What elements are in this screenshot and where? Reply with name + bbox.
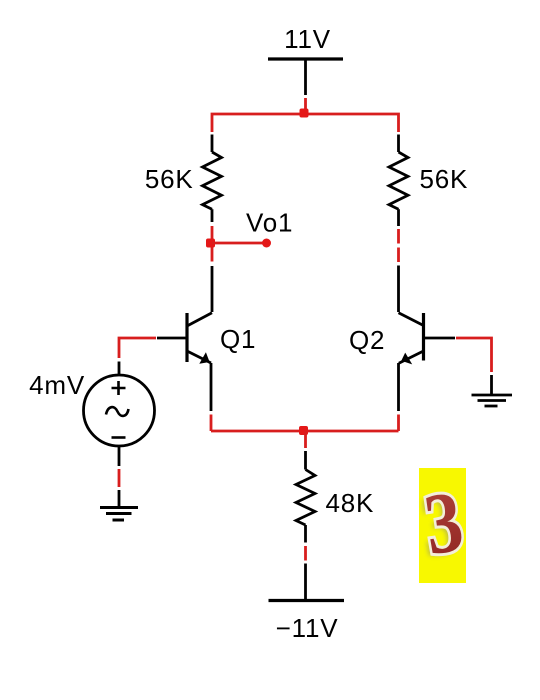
svg-text:48K: 48K: [326, 488, 375, 518]
svg-text:−11V: −11V: [276, 613, 339, 643]
wire Q1 base red: [119, 338, 156, 358]
transistor Q2 emitter diagonal: [399, 351, 424, 363]
svg-text:56K: 56K: [145, 164, 194, 194]
wire Q1 emitter black: [210, 363, 213, 411]
svg-text:4mV: 4mV: [29, 370, 85, 400]
wire Vo1 stub: [212, 242, 264, 245]
resistor R3 48K zigzag: [296, 470, 315, 526]
wire Vo1 vertical red: [211, 226, 214, 262]
wire emitter rail: [211, 430, 399, 433]
wire Q1 collector: [211, 266, 214, 312]
transistor Q2 emitter arrow: [401, 353, 412, 365]
svg-text:56K: 56K: [420, 164, 469, 194]
wire tail black bottom: [304, 564, 307, 601]
source V1 circle: [84, 375, 155, 446]
transistor Q1 collector diagonal: [187, 313, 212, 326]
wire R2 bottom red dash2: [397, 248, 400, 263]
wire source bottom black: [118, 446, 121, 466]
transistor Q1 emitter diagonal: [187, 351, 211, 363]
source V1 minus: [112, 436, 126, 439]
wire Q1 emitter red: [210, 415, 213, 432]
wire tail red bottom: [304, 546, 307, 561]
resistor R2 top lead: [397, 135, 400, 153]
transistor Q1 base bar: [185, 313, 188, 362]
wire Q1 base black: [157, 337, 186, 340]
svg-text:Vo1: Vo1: [246, 208, 293, 238]
badge background: [419, 468, 466, 583]
wire Q2 collector: [397, 266, 400, 313]
resistor R1 bottom lead: [211, 209, 214, 222]
transistor Q1 emitter arrow: [199, 352, 209, 364]
wire Q2 base red: [456, 338, 492, 372]
power -11V bar: [269, 599, 345, 602]
svg-text:Q2: Q2: [349, 325, 385, 355]
node Vo1 endpoint: [262, 239, 271, 248]
resistor R3 bottom lead: [304, 525, 307, 543]
wire source ground lead: [118, 490, 121, 507]
power +11V bar: [268, 57, 343, 60]
resistor R1 top lead: [211, 135, 214, 153]
source V1 plus: [112, 381, 126, 395]
wire supply stem black: [304, 59, 307, 95]
wire Q2 ground lead: [490, 375, 493, 395]
source V1 sine: [106, 407, 129, 416]
wire tail red top: [304, 431, 307, 448]
node Vo1 junction: [206, 239, 215, 248]
resistor R1 56K zigzag: [203, 152, 222, 209]
transistor Q2 collector diagonal: [399, 313, 424, 326]
transistor Q2 base bar: [422, 313, 425, 361]
wire source top lead: [118, 362, 121, 376]
resistor R2 bottom lead: [397, 209, 400, 226]
ground right: [472, 395, 513, 406]
resistor R2 56K zigzag: [389, 152, 408, 209]
junction emitter rail: [299, 426, 308, 435]
svg-text:Q1: Q1: [220, 324, 256, 354]
wire supply stem red: [304, 98, 307, 114]
wire Q2 emitter red: [397, 415, 400, 432]
resistor R3 top lead: [304, 451, 307, 470]
wire top rail: [212, 114, 399, 132]
wire R2 bottom red dash1: [397, 229, 400, 244]
wire Q2 base black: [425, 337, 455, 340]
ground left: [100, 508, 138, 521]
wire Q2 emitter black: [397, 363, 400, 411]
junction top rail: [300, 109, 309, 118]
wire source bottom red: [118, 469, 121, 487]
svg-text:11V: 11V: [284, 24, 331, 54]
